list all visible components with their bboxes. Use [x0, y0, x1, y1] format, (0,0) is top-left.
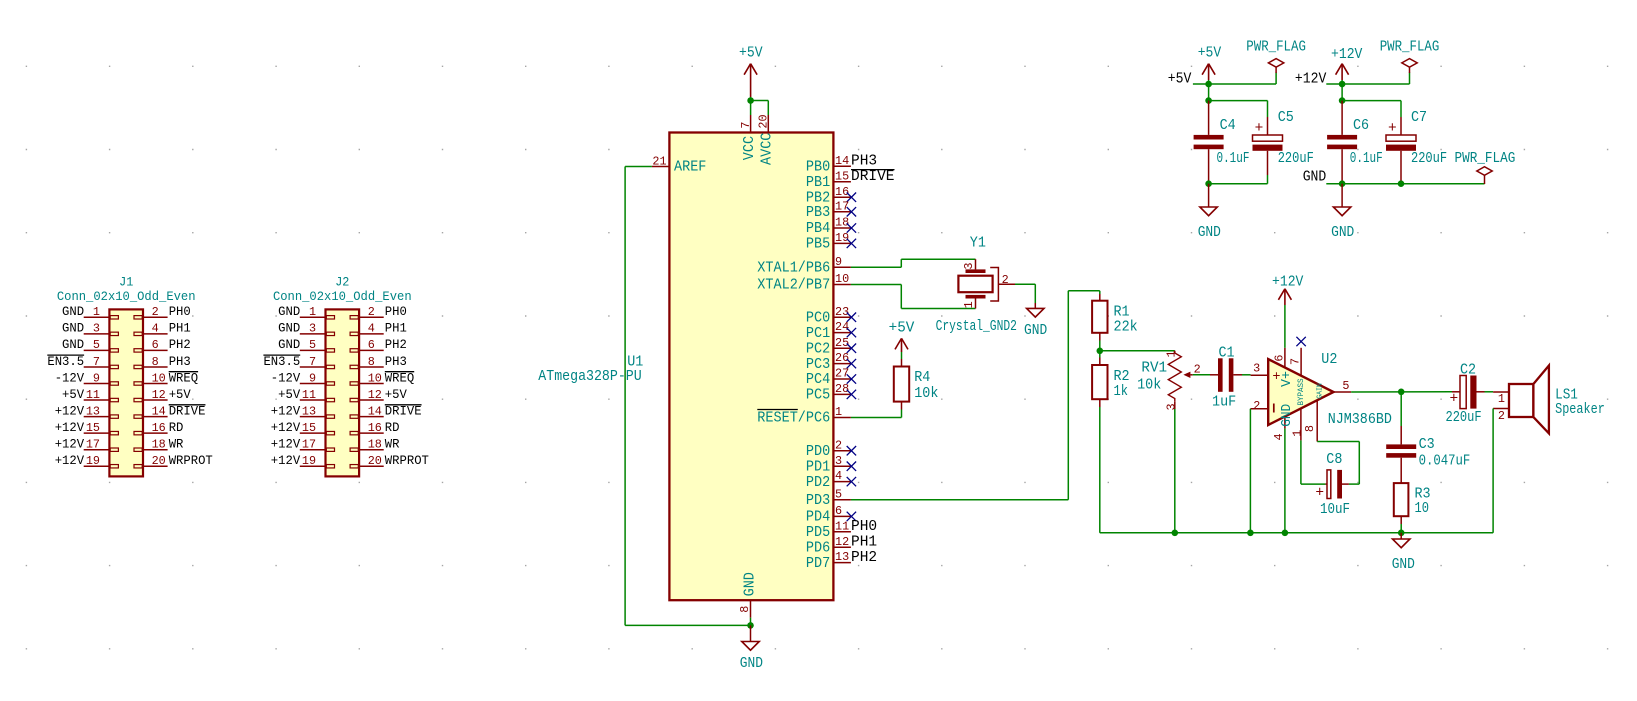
svg-text:20: 20 — [152, 454, 166, 468]
svg-text:VCC: VCC — [742, 136, 758, 161]
svg-text:RESET/PC6: RESET/PC6 — [757, 411, 830, 427]
svg-text:220uF: 220uF — [1411, 151, 1447, 167]
svg-text:C7: C7 — [1411, 110, 1427, 126]
svg-text:9: 9 — [93, 371, 100, 385]
svg-text:15: 15 — [835, 169, 849, 183]
svg-text:PD5: PD5 — [806, 525, 830, 541]
power symbol +5V (R4) — [889, 320, 915, 352]
svg-text:2: 2 — [152, 305, 159, 319]
svg-text:GND: GND — [1331, 225, 1354, 241]
svg-text:0.1uF: 0.1uF — [1217, 151, 1250, 167]
svg-text:PB4: PB4 — [806, 221, 831, 237]
junction +5V at arrow — [1205, 81, 1212, 88]
svg-text:EN3.5: EN3.5 — [263, 354, 300, 369]
svg-text:PH2: PH2 — [385, 337, 407, 352]
svg-text:0.047uF: 0.047uF — [1419, 454, 1471, 470]
svg-text:Speaker: Speaker — [1555, 402, 1605, 418]
svg-text:PH1: PH1 — [851, 535, 877, 551]
svg-text:6: 6 — [835, 504, 842, 518]
svg-text:20: 20 — [368, 454, 382, 468]
svg-text:2: 2 — [1498, 409, 1505, 423]
svg-text:PWR_FLAG: PWR_FLAG — [1246, 40, 1306, 56]
IC U1 ATmega328P-PU — [538, 133, 894, 601]
svg-text:C6: C6 — [1353, 118, 1369, 134]
junction under U1 pin 8 — [747, 622, 754, 629]
power symbol +12V (U2) — [1272, 275, 1304, 305]
svg-text:15: 15 — [86, 421, 100, 435]
svg-text:J2: J2 — [335, 275, 349, 290]
svg-text:U2: U2 — [1321, 352, 1337, 368]
svg-text:GND: GND — [278, 337, 300, 352]
svg-text:PB1: PB1 — [806, 175, 831, 191]
svg-text:+5V: +5V — [169, 387, 191, 402]
wire U2 output — [1351, 391, 1460, 393]
svg-text:10: 10 — [835, 272, 849, 286]
svg-text:6: 6 — [368, 338, 375, 352]
svg-text:18: 18 — [368, 438, 382, 452]
svg-text:22k: 22k — [1114, 320, 1138, 336]
wire RV1 to ground bus — [1174, 401, 1176, 533]
svg-text:12: 12 — [152, 388, 166, 402]
wire output to C3 — [1400, 392, 1402, 445]
power flag PWR_FLAG (GND) — [1455, 151, 1516, 184]
svg-text:10uF: 10uF — [1320, 502, 1350, 518]
svg-text:+12V: +12V — [271, 453, 301, 468]
wire U2 pin 4 to ground bus — [1284, 429, 1286, 533]
svg-text:NJM386BD: NJM386BD — [1328, 412, 1392, 428]
ground symbol GND (Y1) — [1024, 303, 1047, 339]
U1 pin 20 AVCC (top) — [757, 114, 776, 165]
svg-text:26: 26 — [835, 351, 849, 365]
ground bus wire — [1100, 532, 1493, 534]
wire PD3 to R1 top — [851, 291, 1100, 500]
svg-text:C8: C8 — [1326, 452, 1342, 468]
svg-text:16: 16 — [835, 185, 849, 199]
capacitor C2 220uF (polarized) — [1446, 362, 1482, 426]
svg-text:R4: R4 — [914, 370, 930, 386]
svg-text:3: 3 — [1164, 403, 1178, 410]
svg-text:18: 18 — [835, 216, 849, 230]
svg-text:+5V: +5V — [62, 387, 84, 402]
svg-text:Conn_02x10_Odd_Even: Conn_02x10_Odd_Even — [57, 289, 196, 304]
wire XTAL2 to Y1 pin 1 — [851, 285, 976, 309]
resistor R2 1k — [1092, 365, 1130, 400]
connector J2 Conn_02x10_Odd_Even — [263, 275, 429, 477]
svg-text:5: 5 — [835, 487, 842, 501]
power flag PWR_FLAG (+12V) — [1380, 40, 1440, 74]
wire VCC/AVCC — [751, 97, 769, 115]
svg-text:WR: WR — [385, 437, 400, 452]
svg-text:16: 16 — [368, 421, 382, 435]
svg-text:+12V: +12V — [1331, 47, 1363, 63]
svg-text:220uF: 220uF — [1278, 151, 1314, 167]
junction at output — [1398, 389, 1405, 396]
svg-text:10: 10 — [1415, 501, 1430, 517]
svg-text:PC1: PC1 — [806, 326, 831, 342]
resistor R4 10k — [894, 367, 939, 402]
capacitor C8 10uF (polarized) — [1315, 452, 1350, 518]
svg-text:1: 1 — [962, 301, 976, 308]
wire Y1 pin 2 to GND — [1015, 284, 1035, 303]
svg-text:19: 19 — [86, 454, 100, 468]
svg-text:6: 6 — [152, 338, 159, 352]
wire GND rail — [1326, 183, 1484, 185]
svg-text:+12V: +12V — [271, 420, 301, 435]
wire +12V to U2 pin 6 — [1284, 305, 1286, 348]
ground symbol GND (C4) — [1198, 184, 1221, 241]
svg-text:5: 5 — [93, 338, 100, 352]
junction bus U2 pin2 — [1247, 530, 1254, 537]
svg-text:V+: V+ — [1279, 371, 1295, 387]
svg-text:1k: 1k — [1114, 384, 1129, 400]
svg-text:+5V: +5V — [385, 387, 407, 402]
svg-text:+12V: +12V — [271, 437, 301, 452]
svg-text:PC3: PC3 — [806, 357, 830, 373]
junction GND at C6 — [1339, 180, 1346, 187]
svg-text:3: 3 — [835, 454, 842, 468]
svg-text:GND: GND — [278, 321, 300, 336]
junction +12V branch — [1339, 97, 1346, 104]
svg-text:1uF: 1uF — [1212, 395, 1236, 411]
svg-text:+5V: +5V — [1198, 46, 1222, 62]
svg-text:PC4: PC4 — [806, 372, 831, 388]
svg-text:PC0: PC0 — [806, 310, 830, 326]
svg-text:ATmega328P-PU: ATmega328P-PU — [538, 369, 641, 385]
capacitor C4 0.1uF — [1194, 101, 1250, 184]
wire C2 to LS1 — [1477, 391, 1494, 393]
svg-text:19: 19 — [835, 231, 849, 245]
svg-text:18: 18 — [152, 438, 166, 452]
ground symbol GND (C6) — [1331, 184, 1354, 241]
svg-text:DRIVE: DRIVE — [385, 403, 422, 418]
svg-text:8: 8 — [368, 355, 375, 369]
svg-text:+5V: +5V — [889, 320, 915, 336]
svg-text:DRIVE: DRIVE — [851, 169, 895, 185]
svg-text:4: 4 — [368, 322, 375, 336]
svg-text:PWR_FLAG: PWR_FLAG — [1380, 40, 1440, 56]
svg-text:+5V: +5V — [739, 46, 763, 62]
svg-text:2: 2 — [1002, 273, 1009, 287]
svg-text:C5: C5 — [1278, 110, 1294, 126]
svg-text:15: 15 — [302, 421, 316, 435]
svg-text:5: 5 — [1342, 379, 1349, 393]
svg-text:+12V: +12V — [1295, 72, 1327, 88]
wire U2 pin 1 to C8 — [1301, 440, 1327, 484]
svg-text:10: 10 — [152, 371, 166, 385]
wire C5 to GND rail — [1209, 175, 1268, 184]
svg-text:+: + — [1315, 486, 1324, 502]
svg-text:GND: GND — [740, 656, 763, 672]
svg-text:+12V: +12V — [55, 437, 85, 452]
svg-text:14: 14 — [368, 404, 382, 418]
svg-text:23: 23 — [835, 305, 849, 319]
svg-text:WRPROT: WRPROT — [169, 453, 213, 468]
svg-text:PD0: PD0 — [806, 444, 830, 460]
wire LS1 pin2 to ground bus — [1492, 409, 1494, 533]
svg-text:RD: RD — [385, 420, 400, 435]
power flag PWR_FLAG (+5V) — [1246, 40, 1306, 74]
svg-text:9: 9 — [309, 371, 316, 385]
connector J1 Conn_02x10_Odd_Even — [47, 275, 213, 477]
svg-text:PH0: PH0 — [385, 304, 407, 319]
svg-text:7: 7 — [309, 355, 316, 369]
svg-text:AVCC: AVCC — [760, 132, 776, 165]
wire +5V to R4 — [901, 352, 903, 367]
svg-text:PH3: PH3 — [851, 154, 877, 170]
svg-text:PD7: PD7 — [806, 556, 830, 572]
svg-text:GND: GND — [62, 337, 84, 352]
svg-text:17: 17 — [835, 199, 849, 213]
svg-text:GAIN: GAIN — [1317, 383, 1325, 399]
svg-text:1: 1 — [1164, 350, 1178, 357]
svg-text:2: 2 — [1253, 399, 1260, 413]
svg-text:8: 8 — [152, 355, 159, 369]
svg-text:4: 4 — [152, 322, 159, 336]
svg-text:PH2: PH2 — [851, 550, 877, 566]
svg-text:+12V: +12V — [271, 403, 301, 418]
svg-text:13: 13 — [302, 404, 316, 418]
svg-text:14: 14 — [152, 404, 166, 418]
junction +5V branch — [1205, 97, 1212, 104]
svg-text:5: 5 — [309, 338, 316, 352]
junction bus R3 — [1398, 530, 1405, 537]
svg-text:3: 3 — [962, 263, 976, 270]
wire +12V rail — [1326, 73, 1409, 101]
svg-text:7: 7 — [93, 355, 100, 369]
svg-text:10: 10 — [368, 371, 382, 385]
svg-text:25: 25 — [835, 336, 849, 350]
svg-text:2: 2 — [835, 438, 842, 452]
junction +12V at arrow — [1339, 81, 1346, 88]
svg-text:GND: GND — [62, 321, 84, 336]
svg-text:16: 16 — [152, 421, 166, 435]
svg-text:4: 4 — [1272, 433, 1286, 440]
svg-text:+12V: +12V — [55, 420, 85, 435]
crystal Y1 Crystal_GND2 — [936, 236, 1017, 335]
capacitor C3 0.047uF — [1386, 437, 1470, 470]
svg-text:BYPASS: BYPASS — [1296, 379, 1306, 406]
svg-text:27: 27 — [835, 367, 849, 381]
svg-text:10k: 10k — [914, 386, 938, 402]
junction GND at C7 — [1398, 180, 1405, 187]
svg-text:21: 21 — [652, 154, 666, 168]
svg-text:+12V: +12V — [1272, 275, 1304, 291]
capacitor C7 220uF (polarized) — [1386, 110, 1447, 184]
svg-text:13: 13 — [835, 550, 849, 564]
svg-text:17: 17 — [302, 438, 316, 452]
svg-text:7: 7 — [739, 122, 753, 129]
svg-text:GND: GND — [742, 572, 758, 597]
svg-text:6: 6 — [1273, 355, 1287, 362]
svg-text:PH1: PH1 — [169, 321, 191, 336]
svg-text:C4: C4 — [1220, 118, 1236, 134]
U1 pin 8 GND (bottom) — [738, 572, 758, 618]
svg-text:+5V: +5V — [1168, 72, 1192, 88]
svg-text:1: 1 — [309, 305, 316, 319]
U1 pin 21 AREF (left) — [652, 154, 707, 175]
svg-text:7: 7 — [1288, 358, 1302, 365]
svg-text:-12V: -12V — [55, 370, 85, 385]
svg-text:GND: GND — [1303, 170, 1327, 186]
svg-text:XTAL1/PB6: XTAL1/PB6 — [757, 261, 830, 277]
wire U1 GND pin — [750, 618, 752, 626]
power symbol +12V (rail) — [1331, 47, 1363, 80]
svg-text:PB5: PB5 — [806, 237, 830, 253]
svg-text:9: 9 — [835, 255, 842, 269]
svg-text:PH2: PH2 — [169, 337, 191, 352]
wire R2 to ground bus — [1099, 399, 1101, 533]
capacitor C1 1uF — [1212, 345, 1236, 410]
svg-text:RV1: RV1 — [1141, 360, 1167, 376]
svg-text:GND: GND — [1392, 557, 1415, 573]
wire junction to RV1 top — [1100, 351, 1175, 353]
svg-text:PD3: PD3 — [806, 493, 830, 509]
speaker LS1 — [1493, 366, 1605, 434]
ground symbol GND (bus) — [1392, 533, 1415, 573]
resistor R3 10 — [1394, 483, 1431, 517]
svg-text:+12V: +12V — [55, 403, 85, 418]
svg-text:PD2: PD2 — [806, 475, 830, 491]
svg-text:PH0: PH0 — [169, 304, 191, 319]
svg-text:12: 12 — [368, 388, 382, 402]
svg-text:WREQ: WREQ — [169, 370, 199, 385]
svg-text:WR: WR — [169, 437, 184, 452]
svg-text:11: 11 — [835, 519, 849, 533]
wire RV1 wiper to C1 — [1193, 374, 1218, 376]
wire +5V rail — [1193, 73, 1276, 101]
svg-text:4: 4 — [835, 469, 842, 483]
svg-text:XTAL2/PB7: XTAL2/PB7 — [757, 278, 830, 294]
junction at VCC branch — [747, 97, 754, 104]
capacitor C5 220uF (polarized) — [1253, 110, 1314, 175]
wire to C5 — [1209, 101, 1268, 117]
svg-text:PH0: PH0 — [851, 519, 877, 535]
svg-text:PD1: PD1 — [806, 459, 831, 475]
svg-text:12: 12 — [835, 535, 849, 549]
junction +5V GND — [1205, 180, 1212, 187]
svg-text:20: 20 — [757, 114, 771, 128]
svg-text:WREQ: WREQ — [385, 370, 415, 385]
svg-text:14: 14 — [835, 154, 849, 168]
svg-text:13: 13 — [86, 404, 100, 418]
svg-text:Conn_02x10_Odd_Even: Conn_02x10_Odd_Even — [273, 289, 412, 304]
svg-text:AREF: AREF — [674, 160, 706, 176]
svg-text:RD: RD — [169, 420, 184, 435]
svg-text:R1: R1 — [1114, 305, 1130, 321]
svg-text:1: 1 — [93, 305, 100, 319]
svg-text:-12V: -12V — [271, 370, 301, 385]
svg-text:GND: GND — [278, 304, 300, 319]
svg-text:+5V: +5V — [278, 387, 300, 402]
svg-text:PD4: PD4 — [806, 510, 831, 526]
svg-text:19: 19 — [302, 454, 316, 468]
potentiometer RV1 10k — [1137, 350, 1201, 410]
svg-text:Crystal_GND2: Crystal_GND2 — [936, 319, 1017, 335]
svg-text:J1: J1 — [119, 275, 133, 290]
U1 pin 7 VCC (top) — [739, 115, 758, 160]
wire R4 to RESET pin — [851, 402, 902, 418]
svg-text:3: 3 — [1253, 361, 1260, 375]
svg-text:220uF: 220uF — [1446, 410, 1482, 426]
op-amp U2 NJM386BD — [1250, 348, 1392, 442]
svg-text:PC2: PC2 — [806, 341, 830, 357]
svg-text:PD6: PD6 — [806, 540, 830, 556]
wire U2 pin 8 to C8 — [1317, 442, 1359, 485]
svg-text:GND: GND — [1198, 225, 1221, 241]
svg-text:8: 8 — [738, 606, 752, 613]
wire XTAL1 to Y1 pin 3 — [851, 259, 976, 267]
power symbol +5V (rail) — [1198, 46, 1222, 80]
svg-text:17: 17 — [86, 438, 100, 452]
no-connect X on U2 pin 7 — [1296, 337, 1305, 346]
svg-text:3: 3 — [309, 322, 316, 336]
svg-text:PH1: PH1 — [385, 321, 407, 336]
svg-text:DRIVE: DRIVE — [169, 403, 206, 418]
svg-text:+12V: +12V — [55, 453, 85, 468]
junction bus U2 pin4 — [1282, 530, 1289, 537]
svg-text:1: 1 — [835, 405, 842, 419]
svg-text:28: 28 — [835, 382, 849, 396]
capacitor C6 0.1uF — [1327, 101, 1383, 184]
svg-text:PB0: PB0 — [806, 160, 830, 176]
svg-text:1: 1 — [1498, 392, 1505, 406]
wire U2 pin 2 to ground bus — [1249, 409, 1251, 533]
wire C1 to U2 pin 3 — [1233, 374, 1250, 376]
svg-text:WRPROT: WRPROT — [385, 453, 429, 468]
svg-text:EN3.5: EN3.5 — [47, 354, 84, 369]
svg-text:3: 3 — [93, 322, 100, 336]
svg-text:24: 24 — [835, 320, 849, 334]
svg-text:11: 11 — [86, 388, 100, 402]
svg-text:GND: GND — [1024, 323, 1047, 339]
svg-text:PH3: PH3 — [385, 354, 407, 369]
svg-text:PC5: PC5 — [806, 388, 830, 404]
power symbol +5V (U1 VCC) — [739, 46, 763, 97]
svg-text:R2: R2 — [1114, 369, 1130, 385]
svg-text:PB2: PB2 — [806, 190, 830, 206]
junction R1/R2 — [1097, 348, 1104, 355]
svg-text:10k: 10k — [1137, 377, 1161, 393]
svg-text:GND: GND — [1279, 404, 1295, 427]
svg-text:+: + — [1449, 392, 1458, 408]
svg-text:PWR_FLAG: PWR_FLAG — [1455, 151, 1516, 167]
svg-text:GND: GND — [62, 304, 84, 319]
wire R1 to R2 — [1099, 333, 1101, 365]
ground symbol GND (U1) — [740, 625, 763, 671]
svg-text:PH3: PH3 — [169, 354, 191, 369]
svg-text:11: 11 — [302, 388, 316, 402]
svg-text:0.1uF: 0.1uF — [1350, 151, 1383, 167]
junction bus RV1 — [1172, 530, 1179, 537]
wire R3 to ground bus — [1400, 516, 1402, 533]
svg-text:C3: C3 — [1419, 437, 1435, 453]
wire to C7 — [1342, 101, 1401, 117]
svg-text:2: 2 — [368, 305, 375, 319]
svg-text:PB3: PB3 — [806, 205, 830, 221]
svg-text:Y1: Y1 — [970, 236, 986, 252]
wire AREF to GND — [625, 167, 750, 626]
wire C3 to R3 — [1400, 458, 1402, 483]
resistor R1 22k — [1092, 301, 1138, 336]
svg-text:8: 8 — [1303, 425, 1317, 432]
